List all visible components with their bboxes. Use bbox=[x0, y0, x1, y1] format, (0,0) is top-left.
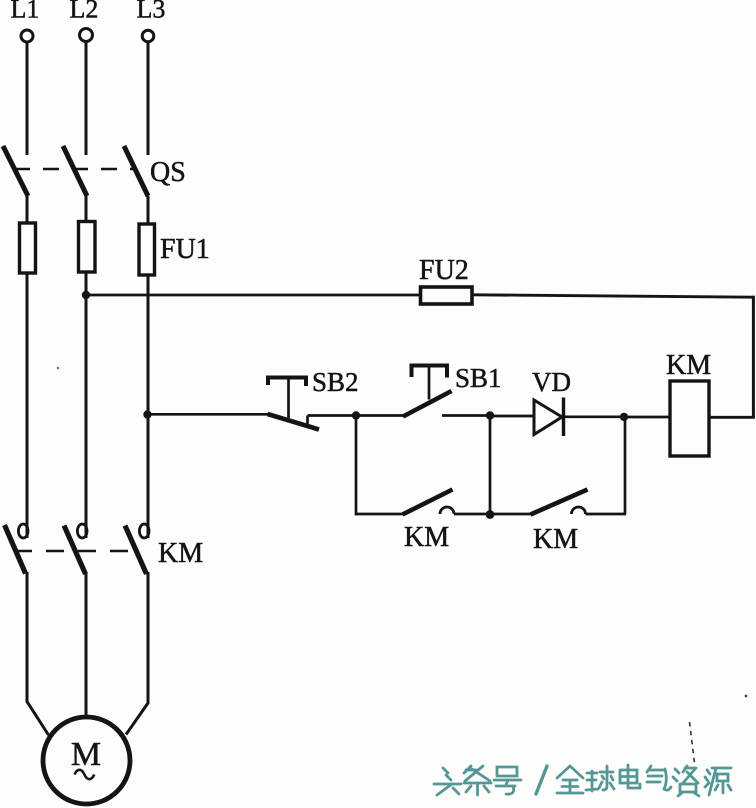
auxiliary contact KM1 blade bbox=[403, 490, 453, 515]
svg-text:FU1: FU1 bbox=[160, 234, 210, 265]
wire L2 fuse to KM main pole 2 bbox=[85, 272, 88, 538]
node D junction bbox=[486, 510, 495, 519]
wire right vertical rail bbox=[752, 296, 755, 418]
svg-text:SB2: SB2 bbox=[312, 367, 359, 397]
fuse FU2 bbox=[421, 287, 473, 304]
contactor KM main pole 2 blade bbox=[64, 526, 86, 575]
svg-text:KM: KM bbox=[533, 524, 578, 555]
QS linkage dashed line bbox=[14, 168, 137, 171]
svg-text:KM: KM bbox=[158, 538, 203, 569]
contactor KM main pole 3 blade bbox=[125, 526, 147, 575]
watermark char 源 bbox=[705, 768, 731, 795]
svg-text:QS: QS bbox=[150, 157, 186, 188]
wire KM2 aux right bbox=[586, 513, 627, 516]
svg-text:L3: L3 bbox=[137, 0, 166, 24]
svg-text:SB1: SB1 bbox=[455, 363, 502, 393]
watermark char 气 bbox=[647, 766, 671, 790]
fuse FU1 pole 3 bbox=[139, 224, 155, 275]
wire bottom branch left bbox=[356, 513, 404, 516]
wire L2 terminal to QS bbox=[85, 42, 88, 156]
svg-text:KM: KM bbox=[666, 350, 711, 381]
fuse FU1 pole 2 bbox=[79, 222, 96, 273]
contactor KM main pole 1 fixed hook bbox=[18, 524, 28, 538]
wire FU2 rail left segment bbox=[86, 294, 421, 297]
motor M circle bbox=[43, 717, 130, 804]
pushbutton SB1 actuator stem bbox=[428, 367, 431, 400]
node C junction bbox=[620, 413, 628, 421]
wire KM coil to right rail bbox=[709, 416, 755, 419]
wire node D to KM2 aux bbox=[490, 513, 532, 516]
contactor coil KM bbox=[670, 381, 709, 456]
node junction L3 / control rail bbox=[143, 410, 151, 418]
wire SB1 to node B bbox=[442, 414, 490, 417]
contactor KM main pole 1 blade bbox=[5, 525, 26, 574]
diode VD anode triangle bbox=[534, 400, 562, 435]
wire SB2 to node A bbox=[308, 414, 357, 417]
watermark char 全 bbox=[557, 766, 583, 793]
contactor KM main pole 2 fixed hook bbox=[77, 524, 87, 538]
pushbutton SB2 (NC) actuator cap bbox=[268, 378, 306, 387]
node B junction bbox=[486, 411, 494, 419]
watermark char 头 bbox=[434, 768, 461, 795]
pushbutton SB1 (NO) actuator cap bbox=[412, 366, 448, 378]
node A junction bbox=[352, 411, 360, 419]
svg-text:M: M bbox=[71, 736, 101, 773]
wire L3 fuse to KM main pole 3 bbox=[147, 275, 150, 538]
wire KM pole 2 to motor bbox=[85, 573, 88, 717]
switch QS pole 1 blade bbox=[3, 146, 28, 196]
wire node C to KM coil bbox=[624, 416, 670, 419]
watermark char 号 bbox=[494, 767, 521, 794]
wire node A to SB1 bbox=[356, 414, 404, 417]
wire FU2 rail right segment bbox=[472, 295, 755, 297]
wire L1 terminal to QS bbox=[26, 42, 29, 155]
KM main linkage dashed line bbox=[14, 550, 140, 553]
terminal L2 bbox=[80, 29, 93, 42]
svg-text:L1: L1 bbox=[11, 0, 40, 24]
fuse FU1 pole 1 bbox=[20, 223, 36, 273]
terminal L3 bbox=[142, 30, 154, 42]
wire QS pole 2 to fuse bbox=[85, 196, 88, 222]
watermark char 球 bbox=[586, 766, 614, 791]
wire diode to node C bbox=[564, 415, 625, 418]
wire branch up to node C bbox=[624, 417, 627, 515]
wire node B to diode bbox=[490, 415, 534, 418]
svg-text:FU2: FU2 bbox=[419, 255, 469, 286]
motor AC tilde bbox=[75, 770, 95, 779]
wire KM pole 3 to motor bbox=[126, 572, 148, 735]
auxiliary contact KM2 fixed arc bbox=[572, 507, 586, 514]
pushbutton SB2 fixed contact tick bbox=[306, 416, 309, 426]
wire node A down branch bbox=[355, 416, 358, 516]
wire L1 fuse to KM main pole 1 bbox=[26, 273, 29, 538]
svg-text:L2: L2 bbox=[70, 0, 99, 24]
wire QS pole 3 to fuse bbox=[147, 196, 150, 225]
contactor KM main pole 3 fixed hook bbox=[139, 524, 149, 538]
pushbutton SB1 blade bbox=[403, 391, 452, 417]
scan artifact dot bbox=[745, 695, 748, 698]
auxiliary contact KM2 blade bbox=[531, 490, 588, 515]
scan artifact dashed line bbox=[690, 722, 695, 763]
switch QS pole 3 blade bbox=[124, 146, 148, 196]
terminal L1 bbox=[21, 30, 33, 42]
wire KM1 aux to node D bbox=[454, 513, 490, 516]
wire L3 terminal to QS bbox=[147, 42, 150, 155]
svg-text:KM: KM bbox=[404, 522, 449, 553]
pushbutton SB2 blade bbox=[268, 414, 320, 430]
watermark char 资 bbox=[673, 766, 699, 796]
wire KM pole 1 to motor bbox=[27, 572, 49, 735]
watermark 头条号 / 全球电气资源 bbox=[434, 765, 731, 796]
pushbutton SB2 actuator stem bbox=[287, 379, 290, 418]
wire control rail from L3 to SB2 bbox=[148, 413, 270, 416]
node junction L2 / FU2 rail bbox=[82, 291, 90, 299]
wire node B down branch bbox=[489, 416, 492, 515]
diode VD cathode bar bbox=[562, 398, 565, 437]
wire QS pole 1 to fuse bbox=[26, 196, 29, 224]
watermark slash bbox=[536, 766, 547, 794]
svg-text:VD: VD bbox=[532, 367, 571, 397]
switch QS pole 2 blade bbox=[63, 146, 87, 196]
scan artifact speck bbox=[57, 367, 60, 370]
watermark char 条 bbox=[464, 766, 491, 795]
watermark char 电 bbox=[620, 765, 640, 788]
auxiliary contact KM1 fixed arc bbox=[440, 507, 454, 514]
